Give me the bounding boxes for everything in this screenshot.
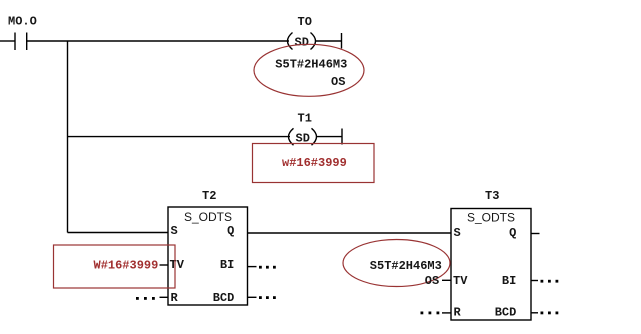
value W#16#3999 (T2 TV) (94, 259, 159, 273)
coil T0 (SD) (288, 15, 316, 50)
value S5T#2H46M3 (T3 TV) (370, 259, 442, 273)
svg-text:T1: T1 (298, 111, 312, 125)
annotation ellipse around S5T#2H46M3 / OS (T3) (343, 240, 450, 287)
dots BI output of T2 (259, 266, 276, 269)
svg-text:BCD: BCD (213, 291, 235, 305)
svg-text:S: S (454, 226, 461, 240)
terminal bar T0 rung (341, 33, 343, 49)
svg-text:BI: BI (220, 258, 234, 272)
node junction at x=67.5 (67, 41, 69, 233)
dots R input of T3 (421, 312, 440, 315)
value S5T#2H46M3 (T0) (275, 58, 347, 72)
value w#16#3999 (T1) (282, 156, 347, 170)
annotation ellipse around S5T#2H46M3 / OS (T0) (254, 44, 364, 96)
svg-text:OS: OS (425, 274, 439, 288)
wire Q output T2 to S input T3 (248, 232, 452, 234)
svg-text:R: R (454, 306, 462, 320)
timer T3 S_ODTS box (451, 189, 531, 320)
svg-text:S: S (171, 224, 178, 238)
wire BI output of T3 (531, 280, 538, 282)
wire BI output of T2 (248, 266, 257, 268)
contact M0.0 (8, 15, 37, 51)
label OS (T0) (331, 75, 345, 89)
svg-text:w#16#3999: w#16#3999 (282, 156, 347, 170)
wire coil T0 to terminal (316, 40, 342, 42)
svg-text:TO: TO (298, 15, 312, 29)
dots BCD output of T2 (259, 296, 276, 299)
dots BI output of T3 (541, 280, 559, 283)
dots R input of T2 (136, 297, 155, 300)
svg-text:Q: Q (509, 226, 516, 240)
wire contact to coil T0 (27, 40, 289, 42)
svg-text:SD: SD (295, 36, 309, 50)
svg-text:T3: T3 (485, 189, 499, 203)
wire left rail to contact (0, 40, 15, 42)
svg-text:TV: TV (170, 258, 185, 272)
wire branch to coil T1 (68, 136, 291, 138)
svg-text:MO.O: MO.O (8, 15, 37, 29)
wire coil T1 to terminal (317, 136, 342, 138)
svg-text:S5T#2H46M3: S5T#2H46M3 (370, 259, 442, 273)
svg-text:S_ODTS: S_ODTS (467, 211, 515, 225)
svg-text:Q: Q (227, 224, 234, 238)
wire TV input of T3 (442, 279, 451, 281)
svg-text:TV: TV (453, 274, 468, 288)
wire BCD output of T2 (248, 296, 257, 298)
svg-text:OS: OS (331, 75, 345, 89)
svg-text:BCD: BCD (495, 306, 517, 320)
wire R input of T3 (442, 312, 451, 314)
wire BCD output of T3 (531, 312, 538, 314)
annotation rectangle around W#16#3999 (T2 TV) (54, 245, 176, 288)
wire Q output of T3 (531, 233, 540, 235)
annotation rectangle around w#16#3999 (T1) (253, 144, 375, 183)
svg-text:R: R (171, 291, 179, 305)
wire R input of T2 (160, 296, 169, 298)
terminal bar T1 rung (341, 129, 343, 145)
dots BCD output of T3 (541, 312, 559, 315)
svg-text:BI: BI (502, 274, 516, 288)
svg-text:W#16#3999: W#16#3999 (94, 259, 159, 273)
svg-text:T2: T2 (202, 189, 216, 203)
timer T2 S_ODTS box (168, 189, 248, 305)
svg-text:S5T#2H46M3: S5T#2H46M3 (275, 58, 347, 72)
coil T1 (SD) (289, 111, 317, 145)
svg-text:S_ODTS: S_ODTS (184, 210, 232, 224)
wire S input of T2 (68, 232, 169, 234)
label OS (T3 TV) (425, 274, 439, 288)
wire TV input of T2 (160, 264, 169, 266)
